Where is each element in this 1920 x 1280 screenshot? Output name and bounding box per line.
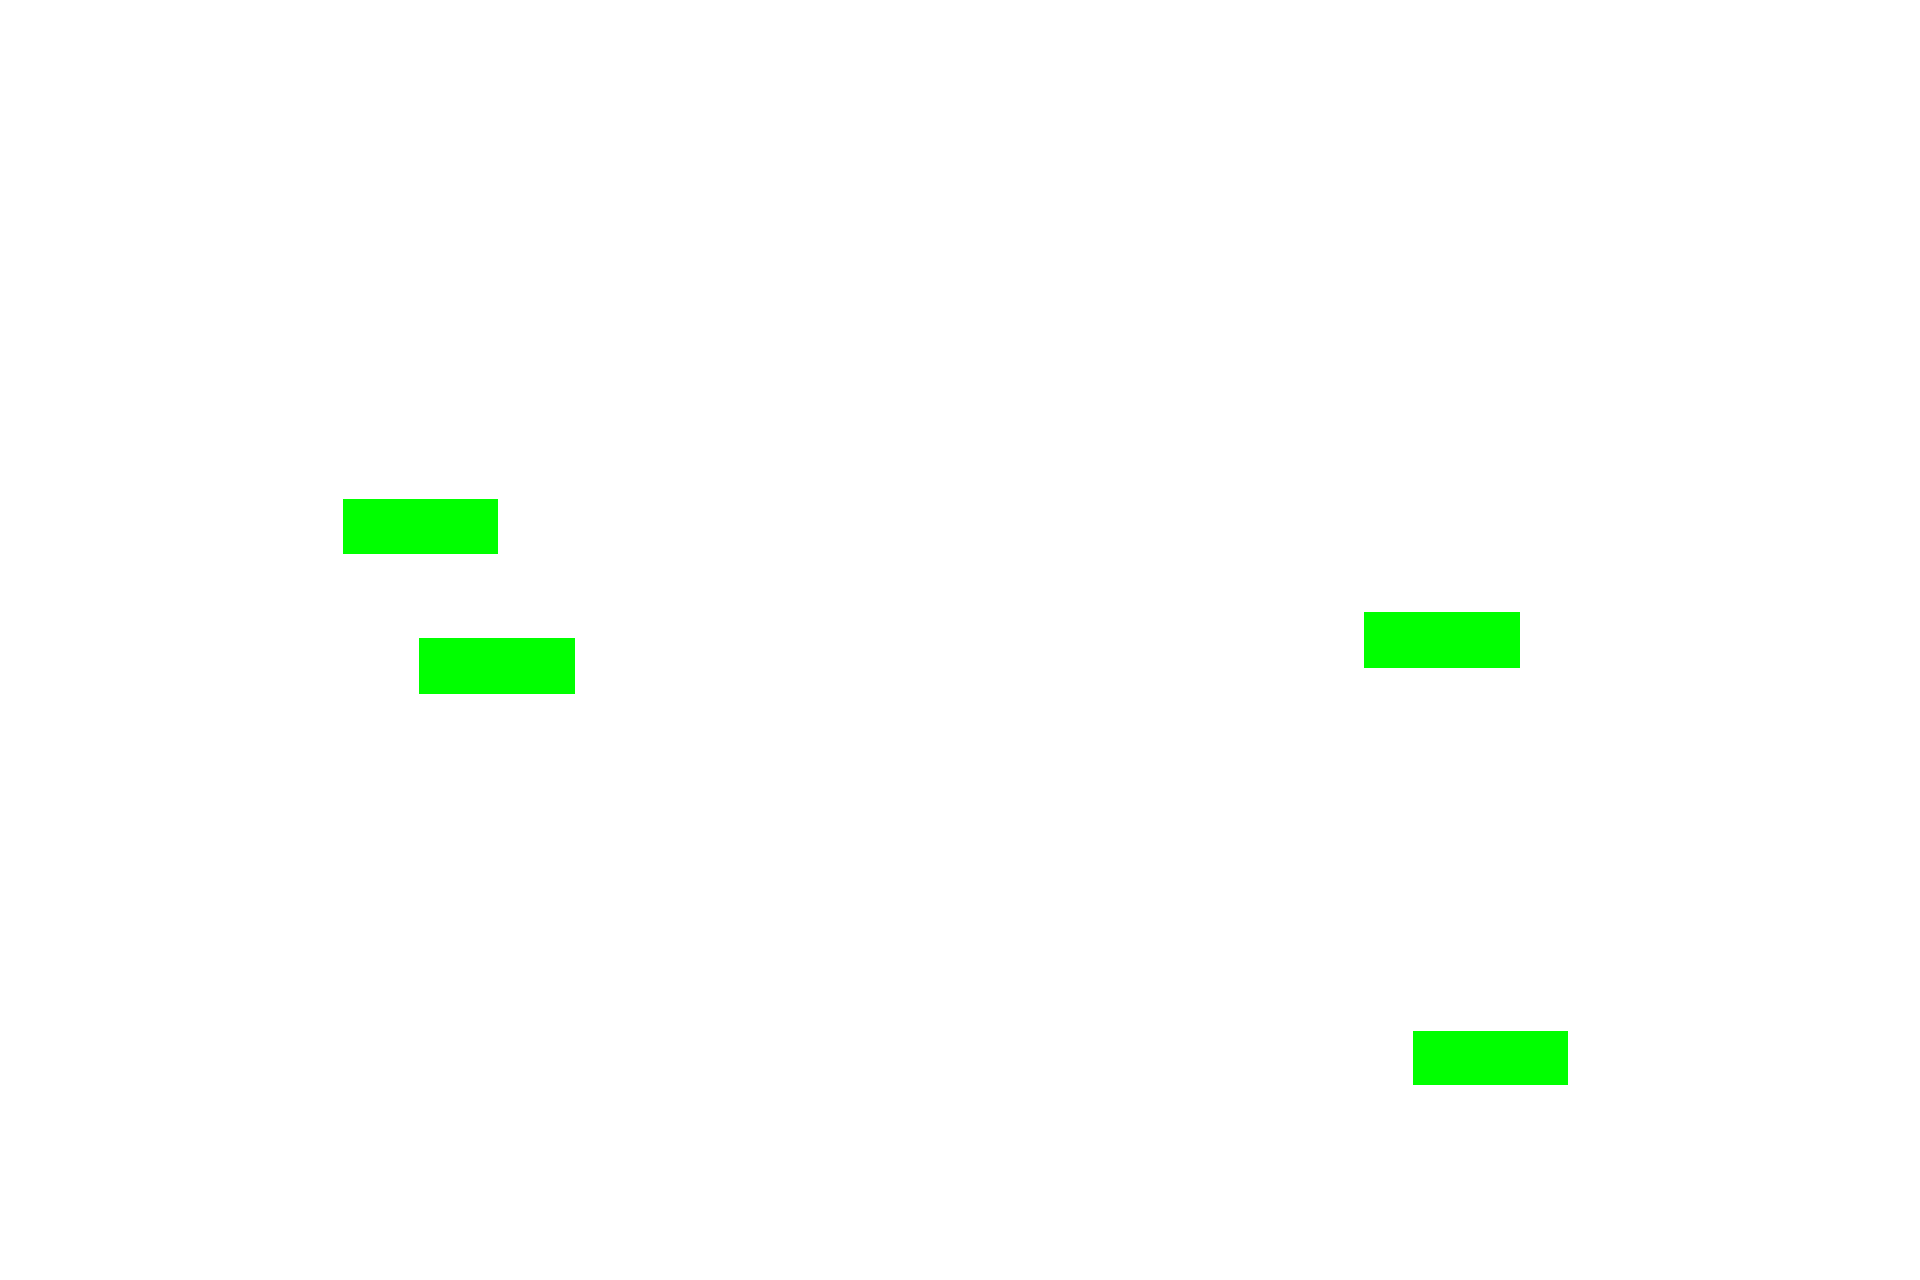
highlight box 4 (component mask, lower right) bbox=[1413, 1031, 1568, 1085]
highlight box 3 (component mask, upper right) bbox=[1364, 612, 1520, 668]
highlight box 2 (component mask, below-right of box 1) bbox=[419, 638, 575, 694]
highlight box 1 (component mask, upper left) bbox=[343, 499, 498, 554]
